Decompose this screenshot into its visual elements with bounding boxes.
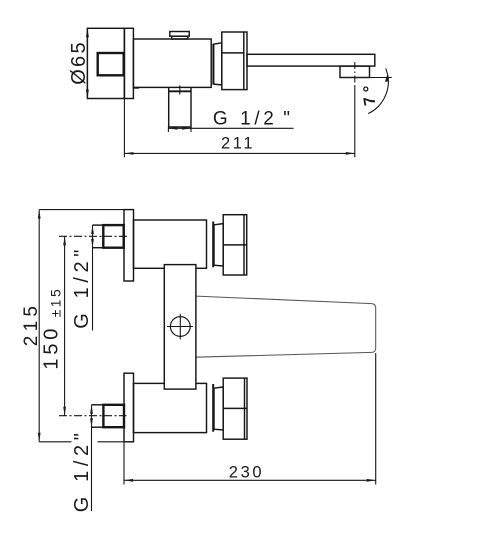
lower knob mid line bbox=[223, 407, 247, 409]
handle ring (side, thick) bbox=[212, 44, 214, 84]
valve body (side) bbox=[133, 39, 211, 87]
wall plate bbox=[87, 28, 124, 98]
dimension Ø65 line bbox=[86, 28, 88, 98]
handle knob (side) bbox=[222, 32, 247, 90]
angle reference line bbox=[370, 77, 392, 79]
dim 230 extension right bbox=[375, 353, 377, 485]
dim G 1/2 lower line bbox=[91, 405, 93, 511]
dimension Ø65 arrow top bbox=[86, 28, 89, 37]
upper centerline (dash-dot) bbox=[59, 235, 127, 237]
upper ring (thick) bbox=[212, 222, 214, 268]
upper knob bevel line bbox=[243, 215, 245, 275]
spout cone bbox=[196, 296, 376, 357]
upper body bbox=[134, 220, 207, 268]
svg-text:G 1/2": G 1/2" bbox=[71, 245, 93, 329]
dim 215 arrow bottom bbox=[38, 433, 41, 442]
cartridge crosshair vertical bbox=[179, 314, 181, 340]
upper wall flange bbox=[124, 210, 134, 281]
dim 230 line bbox=[124, 479, 376, 481]
spout nozzle bbox=[340, 66, 370, 77]
dim 150 line bbox=[64, 236, 66, 415]
dim 150 arrow top bbox=[63, 236, 66, 245]
angle arc arrowhead bbox=[385, 74, 388, 82]
dim G 1/2 (side) extension left bbox=[167, 127, 169, 132]
upper union square (thick) bbox=[103, 225, 123, 248]
dim 230 arrow right bbox=[367, 479, 376, 482]
degree symbol bbox=[364, 87, 368, 91]
dim 215 line bbox=[38, 210, 40, 442]
dimension Ø65 arrow bottom bbox=[86, 90, 89, 99]
dim G 1/2 upper line bbox=[92, 225, 94, 330]
dim 211 line bbox=[124, 152, 354, 154]
dim G 1/2 lower arrow top bbox=[90, 405, 93, 414]
dim 215 arrow top bbox=[38, 210, 41, 219]
body weld dash bbox=[134, 87, 139, 89]
lower ring (thick) bbox=[212, 384, 214, 432]
dim 211 arrow left bbox=[124, 152, 133, 155]
dim 230 extension left bbox=[123, 442, 125, 485]
nozzle centerline (dash-dot) bbox=[354, 62, 356, 86]
svg-text:150: 150 bbox=[40, 325, 62, 370]
handle knob bevel line bbox=[243, 32, 245, 90]
dim G 1/2 lower arrow bottom bbox=[90, 418, 93, 427]
svg-text:211: 211 bbox=[221, 135, 255, 153]
inlet pipe (side) bbox=[169, 87, 191, 127]
spout arm bbox=[247, 54, 375, 66]
cartridge circle bbox=[170, 317, 190, 337]
extension line to 211 dim bbox=[354, 86, 356, 157]
dim 211 extension left (plate edge down) bbox=[123, 99, 125, 158]
dim 215 extension bottom bbox=[39, 441, 71, 443]
dim G 1/2 (side) extension right bbox=[190, 127, 192, 132]
angle 7 deg arc bbox=[368, 68, 388, 113]
dim 150 arrow bottom bbox=[63, 407, 66, 416]
lower body bbox=[134, 383, 207, 432]
dim G 1/2 upper arrow top bbox=[91, 225, 94, 234]
lower neck bbox=[214, 387, 223, 430]
handle neck (side) bbox=[213, 43, 221, 85]
upper knob mid line bbox=[223, 244, 247, 246]
cap screw top plate bbox=[170, 32, 189, 37]
upper knob bbox=[223, 215, 247, 275]
dim 211 arrow right bbox=[346, 152, 355, 155]
dim 215 extension top bbox=[39, 209, 124, 211]
cap screw neck bbox=[172, 36, 188, 39]
upper union pipe thin part bbox=[93, 224, 104, 226]
wall plate flange band bbox=[124, 28, 133, 98]
dim G 1/2 (side) arrow right bbox=[182, 127, 191, 130]
inlet pipe thread line bbox=[169, 90, 191, 92]
upper neck bbox=[214, 224, 223, 266]
svg-text:215: 215 bbox=[21, 302, 42, 346]
lower union pipe thin part bbox=[92, 404, 104, 406]
svg-text:G 1/2": G 1/2" bbox=[71, 429, 93, 513]
dim G 1/2 (side) line bbox=[168, 127, 293, 129]
svg-text:Ø65: Ø65 bbox=[68, 40, 90, 85]
lower knob bbox=[223, 378, 247, 439]
lower knob bevel line bbox=[244, 378, 246, 439]
handle knob mid line bbox=[222, 52, 244, 54]
lower union square (thick) bbox=[103, 405, 124, 427]
lower centerline (dash-dot) bbox=[59, 415, 127, 417]
lower wall flange bbox=[124, 373, 134, 442]
dim 230 arrow left bbox=[124, 479, 133, 482]
svg-text:230: 230 bbox=[229, 463, 264, 481]
wall union square (thick) bbox=[98, 53, 124, 75]
mixer column bbox=[164, 265, 196, 390]
inlet pipe center tick bbox=[179, 85, 181, 94]
dim G 1/2 upper arrow bottom bbox=[91, 239, 94, 248]
dim G 1/2 (side) arrow left bbox=[168, 127, 177, 130]
cartridge crosshair horizontal bbox=[167, 326, 193, 328]
svg-text:±15: ±15 bbox=[48, 287, 63, 317]
